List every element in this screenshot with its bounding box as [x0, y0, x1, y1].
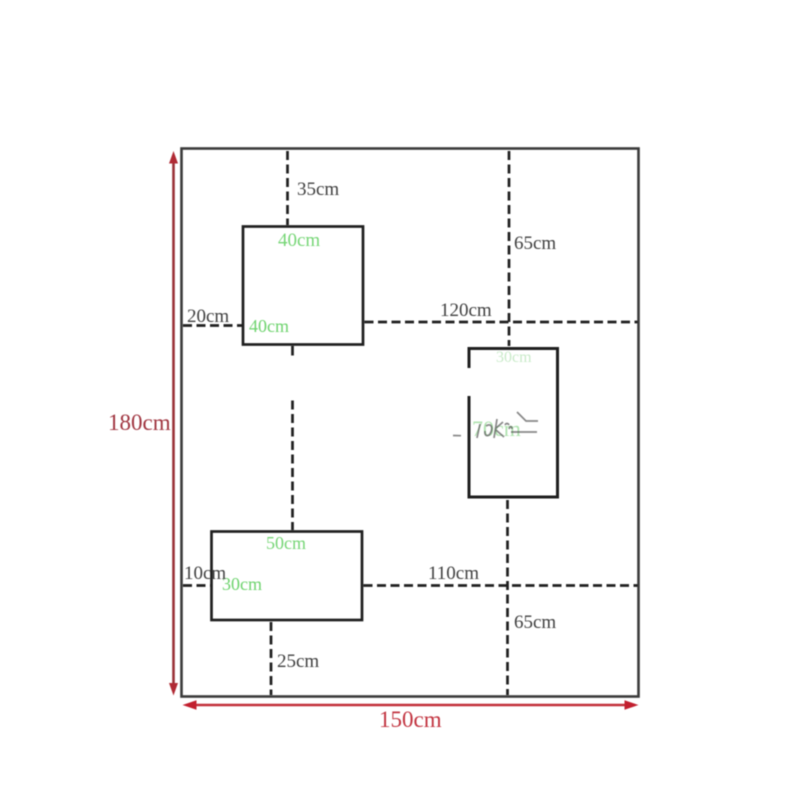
red horizontal dimension arrow (width 150cm)	[183, 700, 639, 709]
outer wall rectangle 150cm x 180cm	[182, 149, 639, 697]
svg-text:20cm: 20cm	[187, 306, 229, 327]
svg-text:35cm: 35cm	[297, 179, 339, 200]
svg-text:30cm: 30cm	[222, 574, 262, 594]
dashed dimension line 110cm (box 3 to right edge)	[364, 584, 638, 587]
svg-text:180cm: 180cm	[108, 410, 171, 435]
box 1 top-left (40x40)	[243, 227, 363, 345]
dashed vertical line between box 1 and box 3	[291, 346, 294, 356]
svg-text:10cm: 10cm	[184, 563, 226, 584]
svg-text:25cm: 25cm	[277, 651, 319, 672]
dashed dimension line 120cm (box 1 to right edge)	[365, 321, 638, 324]
box 3 bottom-left (50x30)	[212, 532, 363, 621]
dashed dimension line 10cm (left edge to box 3)	[183, 584, 211, 587]
svg-text:40cm: 40cm	[278, 230, 320, 251]
svg-text:110cm: 110cm	[428, 563, 479, 584]
svg-text:120cm: 120cm	[440, 300, 492, 321]
svg-text:150cm: 150cm	[379, 707, 442, 732]
dashed dimension line 65cm (top edge down to box 2)	[508, 151, 511, 346]
dashed dimension line 20cm (left edge to box 1)	[183, 324, 242, 327]
dashed dimension line 35cm (top edge to box 1)	[286, 151, 289, 225]
svg-text:50cm: 50cm	[266, 533, 306, 553]
dashed vertical line below box 2 to bottom edge	[506, 500, 509, 695]
dashed dimension line 25cm (box 3 to bottom edge)	[270, 622, 273, 695]
svg-text:40cm: 40cm	[249, 316, 289, 336]
gray pen scribbles over 70cm	[453, 412, 538, 438]
svg-text:30cm: 30cm	[496, 349, 532, 366]
red vertical dimension arrow (height 180cm)	[169, 151, 178, 696]
svg-text:65cm: 65cm	[514, 612, 556, 633]
svg-text:65cm: 65cm	[514, 233, 556, 254]
box 2 right (with gap in left edge)	[469, 349, 558, 498]
